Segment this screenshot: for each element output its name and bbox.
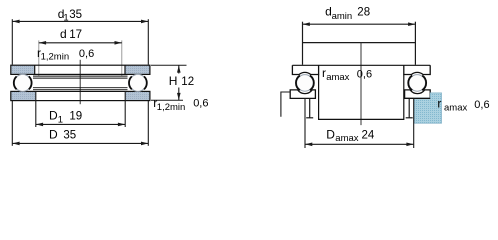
groove arc [422,76,426,91]
dimension d_amin 28 [303,5,416,26]
dimension D 35 [12,128,148,146]
ball right (right view) [409,75,426,92]
housing abutment block (teal) [414,93,441,123]
shoulder diameter stub right [408,98,410,117]
shaft shoulder right edge [414,22,416,65]
ball left (right view) [297,75,314,92]
svg-text:1,2min: 1,2min [41,52,70,63]
centerline right view [360,43,362,126]
groove arc right ball right [144,76,147,89]
svg-text:19: 19 [69,111,82,123]
extension line left bottom [11,101,13,146]
svg-text:0,6: 0,6 [474,99,489,111]
svg-text:35: 35 [69,9,82,21]
dimension D_amax 24 [305,98,414,148]
groove arc [408,76,412,91]
svg-text:1: 1 [63,13,68,24]
shaft block [319,75,404,120]
svg-text:D: D [49,109,58,123]
svg-text:H: H [169,74,178,88]
raceway shoulder line top 2 [33,77,128,79]
raceway shoulder line bottom 2 [33,89,128,91]
centerline left view [79,60,81,104]
bearing top face line [292,64,430,66]
svg-text:1: 1 [58,114,63,125]
dimension d 17 [39,27,122,76]
ball right [129,74,146,91]
groove arc [310,76,314,91]
washer seat line over teal [405,97,431,99]
svg-text:28: 28 [357,7,370,19]
svg-text:amax: amax [326,72,349,83]
top washer (shaft washer) [11,65,150,74]
groove arc [296,76,300,91]
svg-text:D: D [49,128,58,142]
shaft shoulder left edge [302,22,304,65]
svg-text:amin: amin [332,11,353,22]
svg-text:35: 35 [63,130,76,142]
svg-text:0,6: 0,6 [193,98,208,110]
groove arc right ball left [129,76,132,89]
svg-text:1,2min: 1,2min [157,102,186,113]
shaft face line [303,42,416,44]
svg-text:D: D [326,127,335,141]
svg-text:amax: amax [335,133,358,144]
svg-text:amax: amax [444,102,467,113]
dimension d1 35 [12,7,148,24]
svg-text:24: 24 [362,129,375,141]
extension line right bottom [147,101,149,146]
svg-text:d: d [60,27,67,41]
ball left [14,74,31,91]
svg-text:0,6: 0,6 [79,48,94,60]
housing washer right piece (right view) [405,90,431,99]
raceway shoulder line top 1 [33,75,128,77]
svg-text:r: r [437,97,441,111]
extension line left top [11,19,13,64]
svg-text:0,6: 0,6 [357,68,372,80]
shaft washer left piece [292,65,318,74]
dimension D1 19 [36,91,125,127]
shaft washer right piece [404,65,430,74]
mechanical drawing: thrust ball bearing section + abutment dims [0,0,498,157]
svg-text:17: 17 [69,29,82,41]
housing step outline (left) [281,92,290,117]
housing washer left piece (right view) [290,90,315,99]
dimension H 12 [151,65,194,100]
extension line right top [147,19,149,64]
groove arc left ball left [14,76,17,89]
svg-text:12: 12 [181,76,194,88]
groove arc left ball right [29,76,32,89]
bottom washer (housing washer) [11,91,150,100]
raceway shoulder line bottom 1 [33,87,128,89]
shoulder diameter stub left [309,98,311,117]
